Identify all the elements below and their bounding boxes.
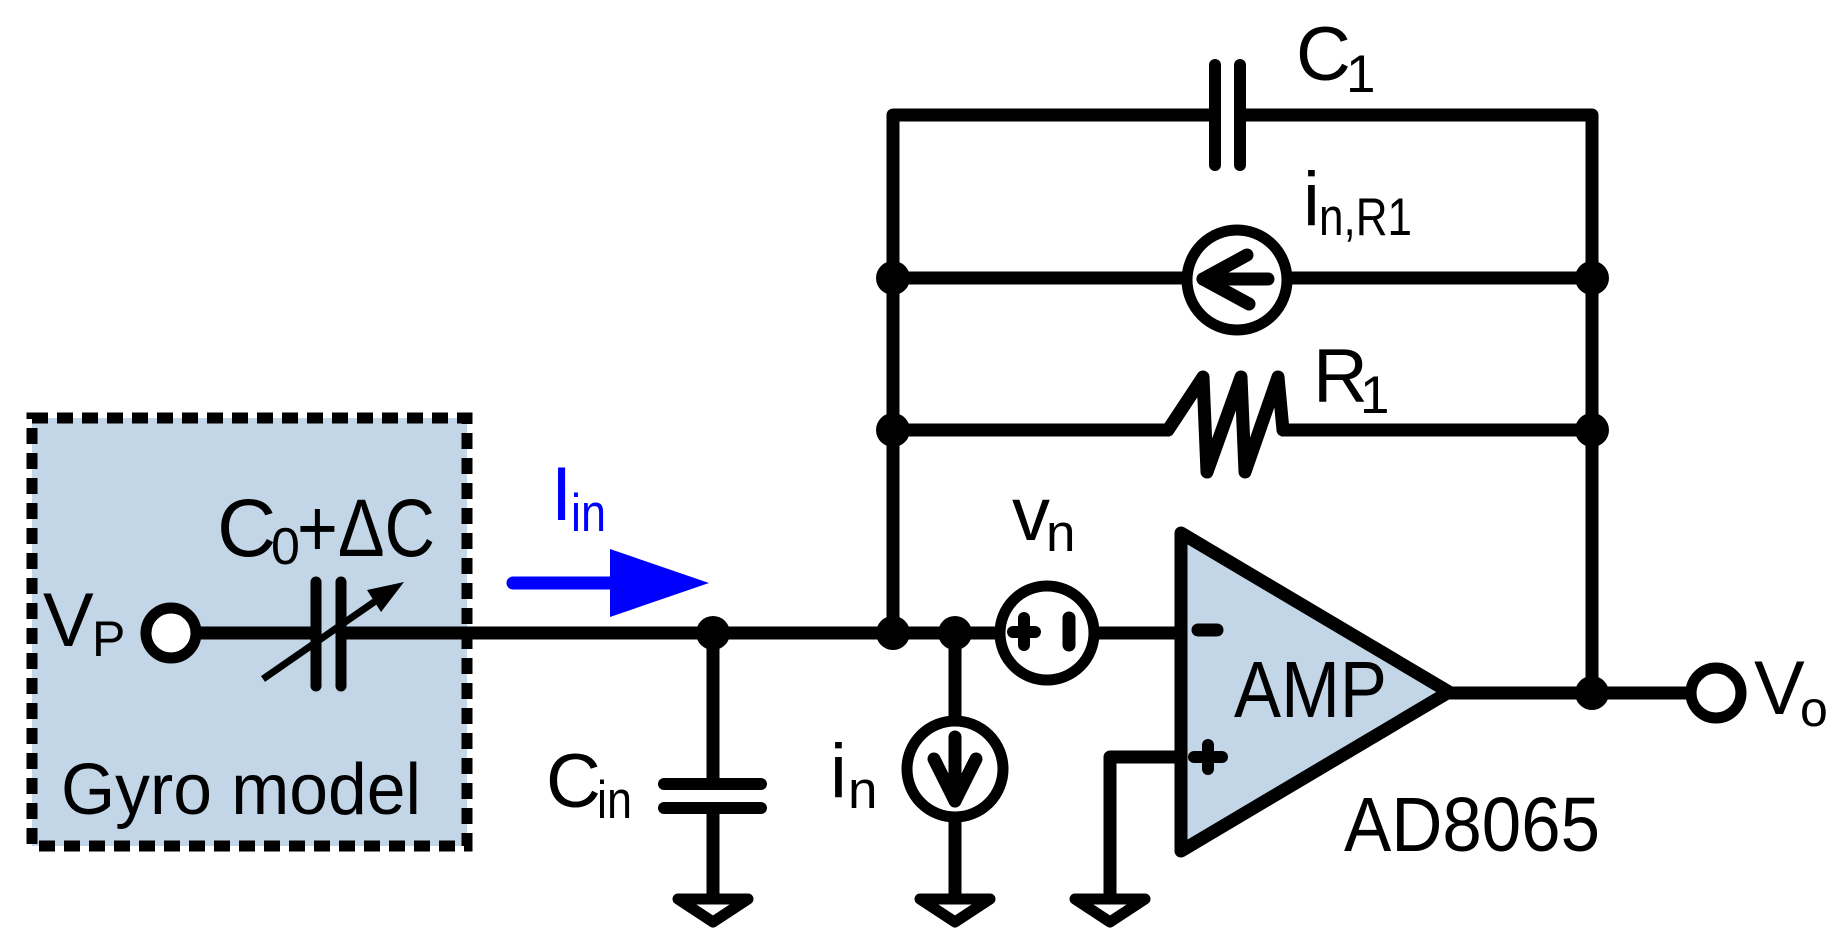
svg-text:v: v bbox=[1012, 472, 1050, 557]
junction dot: feedback right R1 row bbox=[1575, 413, 1609, 447]
op-amp plus sign bbox=[1194, 745, 1222, 769]
wire: i_n,R1 row right bbox=[1285, 272, 1592, 285]
label i_n bbox=[830, 729, 877, 820]
Gyro model box bbox=[32, 418, 467, 846]
wire: i_n branch upper bbox=[949, 633, 962, 718]
svg-text:V: V bbox=[1754, 646, 1805, 731]
label Vo bbox=[1754, 646, 1828, 737]
svg-text:1: 1 bbox=[1360, 366, 1389, 425]
svg-text:in: in bbox=[597, 771, 632, 830]
svg-text:C: C bbox=[546, 739, 601, 824]
current source i_n bbox=[907, 721, 1003, 817]
variable capacitor C0+dC bbox=[263, 582, 404, 686]
terminal Vo bbox=[1691, 668, 1741, 718]
label v_n bbox=[1012, 472, 1075, 563]
wire: R1 row left bbox=[893, 424, 1170, 437]
op-amp minus sign bbox=[1198, 624, 1217, 637]
wire: i_n branch lower bbox=[949, 820, 962, 894]
wire: R1 row right bbox=[1281, 424, 1592, 437]
current arrow I_in (blue) bbox=[513, 549, 709, 617]
svg-text:n,R1: n,R1 bbox=[1319, 188, 1412, 247]
svg-text:P: P bbox=[92, 611, 125, 667]
svg-text:Gyro model: Gyro model bbox=[61, 750, 421, 830]
svg-text:i: i bbox=[1303, 157, 1320, 242]
op-amp U1 (AMP AD8065) bbox=[1181, 533, 1449, 851]
terminal Vp bbox=[146, 608, 196, 658]
capacitor C1 bbox=[1215, 65, 1240, 165]
ground (i_n) bbox=[920, 899, 990, 922]
wire: output bbox=[1449, 687, 1691, 700]
junction dot: Cin node bbox=[696, 616, 730, 650]
label C1 bbox=[1296, 12, 1375, 104]
wire: feedback left branch bbox=[893, 115, 1210, 636]
svg-text:C: C bbox=[217, 483, 276, 574]
svg-text:1: 1 bbox=[1346, 45, 1375, 104]
svg-text:I: I bbox=[551, 452, 572, 537]
capacitor Cin bbox=[664, 784, 761, 808]
wire: main node wire bbox=[345, 627, 1000, 640]
junction dot: output node bbox=[1575, 676, 1609, 710]
junction dot: feedback left i_n,R1 row bbox=[876, 261, 910, 295]
wire: v_n to op-amp minus input bbox=[1094, 627, 1180, 640]
svg-text:in: in bbox=[571, 484, 606, 543]
wire: plus input stub bbox=[1110, 757, 1175, 894]
svg-text:AMP: AMP bbox=[1234, 645, 1387, 734]
label R1 bbox=[1313, 334, 1389, 425]
label I_in (blue) bbox=[551, 452, 606, 543]
svg-text:n: n bbox=[848, 761, 877, 820]
label Vp bbox=[43, 578, 125, 667]
svg-text:n: n bbox=[1046, 504, 1075, 563]
svg-text:AD8065: AD8065 bbox=[1344, 782, 1600, 868]
label i_n,R1 bbox=[1303, 157, 1412, 247]
ground (Cin) bbox=[678, 899, 748, 922]
svg-text:o: o bbox=[1800, 681, 1828, 737]
label Cin bbox=[546, 739, 632, 830]
junction dot: feedback right i_n,R1 row bbox=[1575, 261, 1609, 295]
svg-text:+ΔC: +ΔC bbox=[297, 483, 435, 574]
svg-text:V: V bbox=[43, 578, 94, 663]
svg-text:i: i bbox=[830, 729, 847, 814]
wire: Cin branch upper bbox=[707, 633, 720, 779]
wire: i_n,R1 row left bbox=[893, 272, 1189, 285]
junction dot: feedback node bbox=[876, 616, 910, 650]
voltage source v_n bbox=[1000, 586, 1094, 680]
wire: feedback right branch bbox=[1245, 115, 1592, 693]
resistor R1 bbox=[1168, 377, 1283, 472]
ground (plus input) bbox=[1075, 899, 1145, 922]
label C0+dC bbox=[217, 483, 435, 576]
current source i_n,R1 bbox=[1187, 230, 1287, 330]
svg-text:C: C bbox=[1296, 12, 1351, 97]
junction dot: feedback left R1 row bbox=[876, 413, 910, 447]
wire: Cin branch lower bbox=[707, 814, 720, 894]
svg-text:0: 0 bbox=[271, 518, 300, 576]
junction dot: i_n node bbox=[938, 616, 972, 650]
wire: Vp to variable capacitor bbox=[196, 627, 312, 640]
